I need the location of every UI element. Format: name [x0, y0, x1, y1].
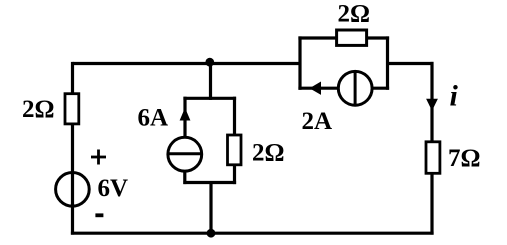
wire right rail upper — [430, 62, 433, 142]
resistor R3 2ohm top box — [337, 30, 367, 45]
svg-text:2Ω: 2Ω — [22, 96, 55, 123]
wire middle branch top stub — [209, 62, 212, 100]
V1 minus sign — [95, 213, 103, 217]
node A top junction dot — [205, 58, 214, 67]
wire parallel block bottom rail — [298, 87, 389, 90]
wire middle resistor branch upper — [233, 97, 236, 135]
wire middle resistor branch lower — [233, 164, 236, 185]
current source I1 6A circle — [168, 137, 202, 171]
svg-text:6V: 6V — [98, 175, 129, 202]
svg-text:2Ω: 2Ω — [338, 1, 371, 28]
wire bottom rail — [71, 232, 434, 235]
wire current source branch lower stub — [183, 171, 186, 185]
wire left rail lower through source — [71, 124, 74, 235]
svg-text:2A: 2A — [302, 108, 333, 135]
wire middle sub-circuit bottom rail — [183, 181, 236, 184]
resistor R4 7ohm box — [426, 142, 440, 174]
wire top rail right segment — [386, 62, 434, 65]
wire left rail upper — [71, 62, 74, 94]
svg-text:6A: 6A — [138, 105, 169, 132]
wire parallel block right vertical — [386, 36, 389, 89]
wire parallel block left vertical — [298, 36, 301, 89]
current source I1 arrow up — [180, 108, 191, 121]
wire middle sub-circuit top rail — [183, 97, 236, 100]
wire right rail lower — [430, 173, 433, 235]
current i arrow down on right rail — [426, 99, 438, 111]
svg-text:7Ω: 7Ω — [448, 145, 481, 172]
I1 horizontal bar — [167, 152, 203, 155]
wire current source branch upper — [183, 97, 186, 138]
svg-text:i: i — [450, 80, 459, 113]
current source I2 arrow left — [310, 82, 322, 95]
svg-text:2Ω: 2Ω — [252, 140, 285, 167]
current source I2 2A circle — [338, 71, 372, 105]
voltage source V1 6V circle — [56, 173, 90, 207]
wire middle branch bottom stub — [209, 183, 212, 234]
I2 vertical bar — [354, 71, 357, 106]
wire parallel block top rail — [298, 36, 389, 39]
V1 plus sign — [91, 150, 106, 165]
resistor R1 2ohm left box — [65, 94, 79, 124]
wire top rail left segment — [73, 62, 302, 65]
resistor R2 2ohm middle box — [228, 135, 242, 165]
node B bottom junction dot — [207, 229, 216, 238]
